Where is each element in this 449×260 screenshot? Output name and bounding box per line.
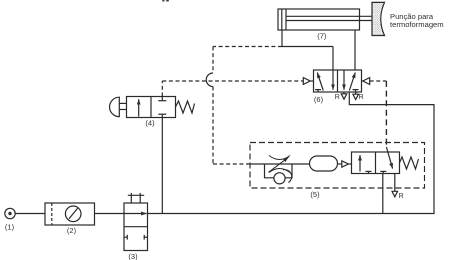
svg-text:(2): (2) [67,226,77,235]
svg-text:termoformagem: termoformagem [390,20,444,29]
svg-text:R: R [335,94,340,101]
svg-text:(6): (6) [314,95,324,104]
svg-text:R: R [359,94,364,101]
svg-text:(3): (3) [128,252,138,260]
svg-text:(5): (5) [310,190,320,199]
svg-text:(7): (7) [317,32,327,41]
svg-text:(4): (4) [145,119,155,128]
svg-text:(1): (1) [5,223,15,232]
svg-text:R: R [399,193,404,200]
